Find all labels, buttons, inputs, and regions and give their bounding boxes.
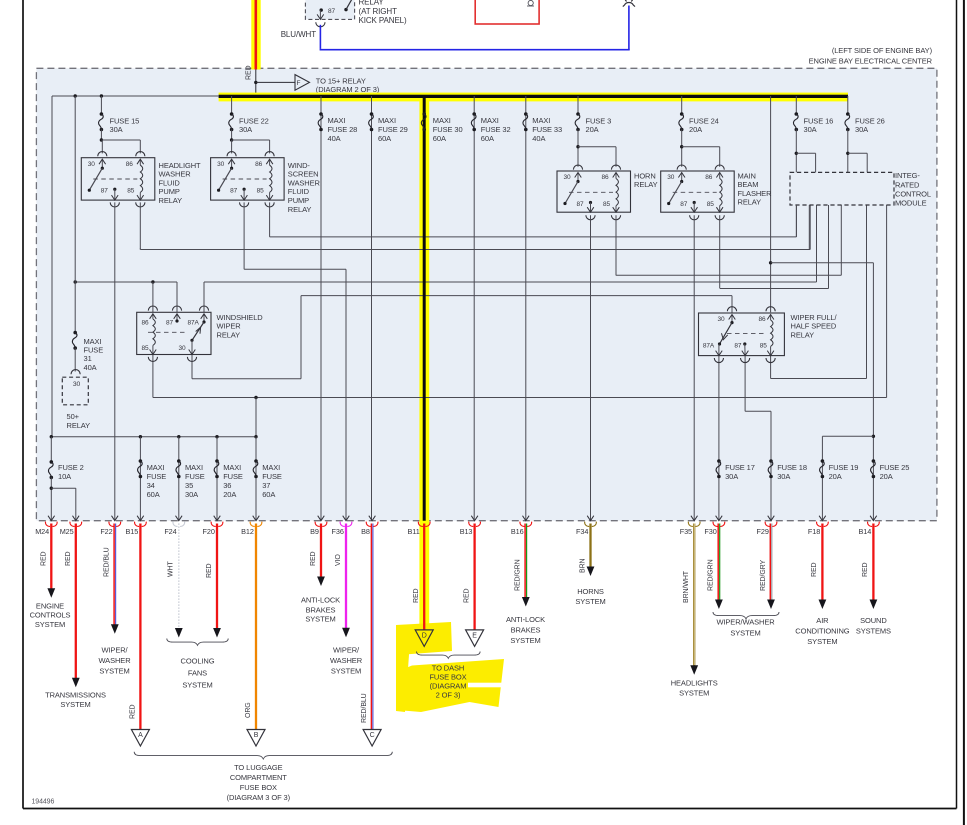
connector sockets below headlight washer relay (110, 202, 119, 207)
connector B8 at enclosure edge (369, 516, 376, 521)
svg-text:60A: 60A (147, 490, 160, 499)
svg-text:RED/GRY: RED/GRY (760, 560, 767, 591)
relay (at right kick panel) box (305, 0, 354, 19)
svg-text:RED: RED (862, 562, 869, 577)
svg-text:FUSE 2: FUSE 2 (58, 463, 84, 472)
svg-text:F30: F30 (704, 527, 716, 536)
svg-text:FUSE 29: FUSE 29 (378, 125, 408, 134)
connector sockets below wiper relay (714, 358, 723, 363)
wire fuse 15 to headlight relay (100, 130, 102, 141)
svg-text:TO DASH: TO DASH (432, 664, 465, 673)
svg-text:M24: M24 (35, 527, 49, 536)
svg-text:20A: 20A (689, 125, 702, 134)
svg-text:86: 86 (142, 319, 150, 326)
fuse MAXI FUSE 35 30A (177, 459, 181, 463)
svg-text:SYSTEM: SYSTEM (730, 629, 760, 638)
svg-text:RED/GRN: RED/GRN (515, 559, 522, 591)
svg-text:40A: 40A (84, 363, 97, 372)
svg-text:87: 87 (230, 188, 238, 195)
svg-text:FUSE 33: FUSE 33 (532, 125, 562, 134)
svg-text:B13: B13 (460, 527, 473, 536)
node on MAXI FUSE 31 wire (74, 280, 77, 283)
svg-text:FUSE: FUSE (147, 472, 167, 481)
svg-text:PUMP: PUMP (288, 196, 309, 205)
svg-text:30A: 30A (110, 125, 123, 134)
connector B15 at enclosure edge (137, 516, 144, 521)
svg-text:HORNS: HORNS (577, 587, 604, 596)
svg-text:30: 30 (667, 174, 675, 181)
svg-text:FUSE BOX: FUSE BOX (240, 783, 277, 792)
node maxi fuse 31 tap (74, 94, 77, 97)
small circle terminal in red box (528, 0, 533, 5)
svg-text:86: 86 (602, 174, 610, 181)
svg-text:RED: RED (40, 551, 47, 566)
svg-text:86: 86 (255, 161, 263, 168)
svg-text:85: 85 (760, 342, 768, 349)
wire RED M24 to engine controls (50, 524, 52, 590)
svg-text:SYSTEM: SYSTEM (35, 620, 65, 629)
connector triangle B (247, 730, 265, 747)
svg-text:(LEFT SIDE OF ENGINE BAY): (LEFT SIDE OF ENGINE BAY) (832, 46, 933, 55)
wire maxi fuse 35 column (178, 437, 180, 521)
svg-text:FLUID: FLUID (288, 187, 310, 196)
svg-text:85: 85 (142, 345, 150, 352)
svg-text:B8: B8 (361, 527, 370, 536)
svg-text:20A: 20A (223, 490, 236, 499)
svg-text:FUSE 17: FUSE 17 (725, 463, 755, 472)
fuse MAXI FUSE 36 20A (215, 459, 219, 463)
wire drop to windshield relay 87 (176, 282, 178, 312)
svg-text:31: 31 (84, 354, 92, 363)
fuse FUSE 17 30A (717, 459, 721, 463)
connector socket under relay (316, 22, 325, 27)
wire ICM pins A-G stubs (795, 205, 797, 237)
wire maxi fuse 37 column (255, 437, 257, 521)
wire horn relay 85 down (615, 215, 617, 275)
connector F34 at enclosure edge (587, 516, 594, 521)
svg-text:86: 86 (759, 316, 767, 323)
svg-text:WHT: WHT (168, 561, 175, 577)
wire headlight relay 85 down (139, 202, 141, 249)
svg-text:20A: 20A (586, 125, 599, 134)
node fuse 2 tap (50, 435, 53, 438)
svg-text:SYSTEM: SYSTEM (182, 681, 212, 690)
brace cooling fans (167, 639, 228, 646)
svg-text:30A: 30A (804, 125, 817, 134)
fuse FUSE 15 30A (100, 112, 104, 116)
bus bar yellow highlight (horizontal) (219, 93, 848, 102)
svg-text:37: 37 (262, 481, 270, 490)
wire fuse 2 to M24/M25 (50, 477, 52, 520)
svg-text:RELAY: RELAY (791, 330, 815, 339)
wire main beam relay 85 to ICM pin D (720, 288, 829, 290)
connector socket above 50+ relay (71, 370, 80, 375)
wire fuse 25 column (872, 461, 874, 521)
wire windshield relay 85 coil return to ICM pin G (152, 355, 154, 398)
integrated control module U5 (dashed box) (790, 172, 894, 205)
svg-text:30A: 30A (777, 472, 790, 481)
svg-text:MAXI: MAXI (185, 463, 203, 472)
wire windshield relay 30 to wiper relay 30 (191, 355, 193, 379)
svg-text:F24: F24 (164, 527, 176, 536)
wire BRN F34 to horns (589, 524, 591, 568)
connector F24 at enclosure edge (176, 516, 183, 521)
svg-text:50+: 50+ (67, 412, 80, 421)
connector sockets above windscreen washer relay (227, 152, 236, 157)
svg-text:CONTROLS: CONTROLS (30, 611, 71, 620)
svg-text:WIPER/WASHER: WIPER/WASHER (716, 618, 775, 627)
svg-text:RELAY: RELAY (67, 421, 91, 430)
wire FUSE 26 feed (847, 96, 849, 114)
wire MAXI FUSE 31 column (74, 96, 76, 333)
svg-text:RED/GRN: RED/GRN (708, 559, 715, 591)
svg-text:SCREEN: SCREEN (288, 170, 319, 179)
svg-text:FLUID: FLUID (159, 178, 181, 187)
svg-text:RELAY: RELAY (359, 0, 385, 7)
svg-text:87: 87 (577, 201, 585, 208)
svg-text:60A: 60A (481, 134, 494, 143)
fuse MAXI FUSE 33 40A (524, 112, 528, 116)
svg-text:87: 87 (734, 342, 742, 349)
svg-text:TRANSMISSIONS: TRANSMISSIONS (45, 691, 106, 700)
relay U1 headlight washer fluid pump relay (81, 158, 155, 200)
connector F36 at enclosure edge (343, 516, 350, 521)
svg-text:B12: B12 (241, 527, 254, 536)
node wiper coil feed (769, 261, 772, 264)
svg-text:MAXI: MAXI (481, 116, 499, 125)
svg-text:FUSE: FUSE (223, 472, 243, 481)
svg-text:WASHER: WASHER (288, 178, 321, 187)
wire fuse 26 to ICM (847, 130, 849, 173)
svg-text:BRN/WHT: BRN/WHT (683, 570, 690, 603)
svg-text:FUSE: FUSE (262, 472, 282, 481)
wire RED/GRN F30 to wiper/washer (717, 524, 719, 601)
fuse FUSE 16 30A (795, 112, 799, 116)
svg-text:B9: B9 (310, 527, 319, 536)
wire main beam relay 85 down (719, 215, 721, 288)
svg-text:FUSE 25: FUSE 25 (880, 463, 910, 472)
svg-text:BLU/WHT: BLU/WHT (281, 30, 317, 39)
svg-text:87A: 87A (703, 342, 715, 349)
svg-text:85: 85 (257, 188, 265, 195)
connector M25 at enclosure edge (73, 516, 80, 521)
connector triangle E (466, 630, 484, 647)
svg-text:BRAKES: BRAKES (306, 605, 336, 614)
connector sockets above wiper full/half speed relay (727, 307, 736, 312)
wire fuse 22 to windscreen relay (231, 130, 233, 141)
svg-text:RELAY: RELAY (634, 180, 658, 189)
svg-text:KICK PANEL): KICK PANEL) (359, 16, 408, 25)
svg-text:WIPER/: WIPER/ (101, 646, 128, 655)
relay U3 horn relay (557, 171, 631, 212)
svg-text:RED: RED (246, 65, 253, 80)
svg-text:FUSE 28: FUSE 28 (328, 125, 358, 134)
wire ORG B12 to triangle B (255, 524, 257, 730)
svg-text:B: B (254, 732, 259, 739)
relay U7 wiper full/half speed relay (699, 313, 785, 356)
svg-text:85: 85 (603, 201, 611, 208)
connector F29 at enclosure edge (768, 516, 775, 521)
wire RED/BLU F22 to wiper/washer (113, 524, 115, 626)
connector F35 at enclosure edge (691, 516, 698, 521)
wire fuse 18 column (770, 461, 772, 521)
svg-text:WIPER: WIPER (217, 322, 242, 331)
connector sockets above main beam relay (677, 165, 686, 170)
fuse MAXI FUSE 34 60A (139, 459, 143, 463)
wire RED F20 to cooling fans (216, 524, 218, 630)
wire wiper relay 87 to fuse 18 (744, 356, 746, 412)
page frame bottom border (23, 808, 957, 810)
wire MAXI FUSE 29 column (to B8) (371, 96, 373, 521)
node maxi 34 tap (139, 435, 142, 438)
fuse FUSE 2 10A (50, 460, 54, 464)
wire RED B11 highlighted to triangle D (423, 524, 425, 630)
connector F22 at enclosure edge (112, 516, 119, 521)
relay switch contact (344, 8, 347, 11)
wire FUSE 22 feed (231, 96, 233, 114)
connector B14 at enclosure edge (870, 516, 877, 521)
svg-text:BRN: BRN (579, 558, 586, 573)
svg-text:30: 30 (88, 161, 96, 168)
svg-text:RED: RED (129, 704, 136, 719)
wire to 15+ relay arrow (256, 81, 295, 83)
wire BRN/WHT F35 to headlights (693, 524, 695, 667)
svg-text:MAXI: MAXI (84, 337, 102, 346)
wire VIO F36 to wiper/washer (345, 524, 347, 630)
svg-text:AIR: AIR (816, 616, 829, 625)
wire fuse 24 to main beam relay (681, 130, 683, 167)
wire main beam relay 87 to F35 (693, 215, 695, 521)
svg-text:ANTI-LOCK: ANTI-LOCK (506, 615, 545, 624)
svg-text:HEADLIGHT: HEADLIGHT (159, 161, 202, 170)
wire MAXI FUSE 28 column (to B9) (320, 96, 322, 521)
svg-text:(DIAGRAM: (DIAGRAM (430, 682, 467, 691)
wire left rail (51, 96, 53, 437)
wire WHT F24 to cooling fans (178, 524, 180, 630)
wire drop to windshield relay 86 (151, 280, 154, 283)
svg-text:60A: 60A (433, 134, 446, 143)
wire RED B15 to triangle A (139, 524, 141, 730)
node feed of bottom-left fuse row (254, 396, 257, 399)
svg-text:F29: F29 (757, 527, 769, 536)
svg-text:ANTI-LOCK: ANTI-LOCK (301, 595, 340, 604)
wire feed to fuses 19/25 from node (771, 262, 874, 264)
svg-text:34: 34 (147, 481, 155, 490)
connector M24 at enclosure edge (48, 516, 55, 521)
svg-text:B14: B14 (859, 527, 872, 536)
page frame right outer border (963, 0, 965, 825)
svg-text:MAIN: MAIN (738, 171, 756, 180)
wire RED M25 to transmissions (75, 524, 77, 680)
svg-text:HALF SPEED: HALF SPEED (791, 322, 837, 331)
svg-text:RED/BLU: RED/BLU (361, 693, 368, 723)
connector triangle A (131, 730, 149, 747)
wire branch to fuse 19 (822, 435, 873, 437)
wire fuse 2 column (50, 437, 52, 462)
svg-text:87A: 87A (188, 319, 200, 326)
red component box (top center) (475, 0, 539, 24)
connector F20 at enclosure edge (214, 516, 221, 521)
svg-text:F: F (297, 80, 301, 87)
svg-text:30: 30 (179, 345, 187, 352)
wire maxi fuse 36 column (216, 437, 218, 521)
svg-text:FUSE BOX: FUSE BOX (429, 673, 466, 682)
connector sockets above horn relay (573, 165, 582, 170)
connector B12 at enclosure edge (253, 516, 260, 521)
wire ICM pin C power rail to windshield wiper relay (75, 281, 177, 283)
svg-text:MAXI: MAXI (262, 463, 280, 472)
svg-text:35: 35 (185, 481, 193, 490)
svg-text:MAXI: MAXI (378, 116, 396, 125)
svg-text:SYSTEM: SYSTEM (510, 636, 540, 645)
svg-text:40A: 40A (328, 134, 341, 143)
svg-text:30: 30 (718, 316, 726, 323)
svg-text:MAXI: MAXI (328, 116, 346, 125)
fuse MAXI FUSE 30 60A (422, 112, 426, 116)
wire horn relay 85 to ICM pin E (616, 274, 841, 276)
svg-text:SYSTEM: SYSTEM (60, 700, 90, 709)
relay pin 87 node (320, 8, 323, 11)
svg-text:M25: M25 (60, 527, 74, 536)
connector sockets below horn relay (586, 215, 595, 220)
wire MAXI FUSE 33 column (to B16) (525, 96, 527, 521)
svg-text:RED: RED (463, 588, 470, 603)
page frame left border (22, 0, 24, 809)
wire windscreen relay 87 down (243, 202, 245, 269)
svg-text:SYSTEM: SYSTEM (679, 689, 709, 698)
svg-text:F18: F18 (808, 527, 820, 536)
svg-text:RELAY: RELAY (217, 330, 241, 339)
svg-text:194496: 194496 (32, 799, 55, 806)
svg-text:MAXI: MAXI (147, 463, 165, 472)
svg-text:20A: 20A (880, 472, 893, 481)
svg-text:COOLING: COOLING (181, 657, 215, 666)
svg-text:60A: 60A (262, 490, 275, 499)
wire RED with yellow highlight (top feed) (251, 0, 260, 70)
wire MAXI FUSE 32 column (to B13) (473, 96, 475, 521)
fuse FUSE 18 30A (769, 459, 773, 463)
svg-text:SYSTEM: SYSTEM (305, 615, 335, 624)
svg-text:RELAY: RELAY (288, 205, 312, 214)
relay U4 main beam flasher relay (661, 171, 735, 212)
svg-text:30: 30 (564, 174, 572, 181)
svg-text:SYSTEM: SYSTEM (575, 597, 605, 606)
svg-text:INTEG-: INTEG- (895, 171, 920, 180)
svg-text:WINDSHIELD: WINDSHIELD (217, 313, 264, 322)
relay pin 87 exit arrow (319, 10, 321, 19)
wire headlight relay 87 to F22 (114, 202, 116, 520)
connector B13 at enclosure edge (471, 516, 478, 521)
svg-text:SYSTEM: SYSTEM (99, 667, 129, 676)
wire MAXI FUSE 30 feed highlighted yellow (vertical bus to B11) (419, 96, 429, 630)
svg-text:BRAKES: BRAKES (511, 626, 541, 635)
svg-text:RED/BLU: RED/BLU (103, 547, 110, 577)
wire fuse 3 to horn relay (577, 130, 579, 167)
fuse MAXI FUSE 32 60A (472, 112, 476, 116)
highlighter blob around TO DASH FUSE BOX (396, 622, 452, 655)
svg-text:WIPER FULL/: WIPER FULL/ (791, 313, 838, 322)
wire horn relay 87 to F34 (590, 215, 592, 521)
wire RED/GRY F29 to wiper/washer (769, 524, 771, 601)
relay U6 windshield wiper relay (137, 312, 211, 354)
fuse MAXI FUSE 31 40A (73, 331, 77, 335)
svg-text:B16: B16 (511, 527, 524, 536)
fuse FUSE 19 20A (821, 459, 825, 463)
wire FUSE 24 feed (681, 96, 683, 114)
wire RED/GRN B16 to anti-lock brakes (524, 524, 526, 599)
svg-text:MAXI: MAXI (433, 116, 451, 125)
svg-text:VIO: VIO (335, 554, 342, 566)
svg-text:36: 36 (223, 481, 231, 490)
page frame right inner border (956, 0, 958, 809)
brace to luggage compartment (134, 752, 392, 759)
node maxi 37 tap (254, 435, 257, 438)
wire wiper relay 85 coil to ICM pin F (770, 356, 772, 379)
svg-text:FLASHER: FLASHER (738, 189, 773, 198)
wire windscreen relay 85 to ICM pin A (270, 236, 797, 238)
svg-text:E: E (472, 633, 477, 640)
wire RED B14 to sound systems (872, 524, 874, 601)
wire headlight relay 85 to ICM pin B (139, 248, 141, 249)
fuse FUSE 3 20A (576, 112, 580, 116)
wire fuse 16 to ICM (795, 130, 797, 173)
wire windscreen relay 85 down (269, 202, 271, 237)
wire FUSE 16 feed (795, 96, 797, 114)
wire windscreen relay 87 to F36 (244, 268, 346, 270)
svg-text:WASHER: WASHER (330, 656, 363, 665)
svg-text:40A: 40A (532, 134, 545, 143)
svg-text:C: C (370, 732, 375, 739)
connector sockets above headlight washer relay (98, 152, 107, 157)
svg-text:30A: 30A (239, 125, 252, 134)
wire maxi fuse 34 column (139, 437, 141, 521)
connector arrow F (to 15+ relay) (295, 75, 310, 91)
svg-text:FUSE 32: FUSE 32 (481, 125, 511, 134)
svg-text:87: 87 (166, 319, 174, 326)
wire bottom-left feed line (52, 436, 256, 438)
node maxi 36 tap (215, 435, 218, 438)
wire RED F18 to air conditioning (821, 524, 823, 601)
svg-text:86: 86 (705, 174, 713, 181)
svg-text:F20: F20 (203, 527, 215, 536)
wire RED B13 to triangle E (473, 524, 475, 630)
svg-text:WIND-: WIND- (288, 161, 311, 170)
svg-text:HORN: HORN (634, 171, 656, 180)
svg-text:BEAM: BEAM (738, 180, 759, 189)
junction node (254, 81, 257, 84)
svg-text:MAXI: MAXI (223, 463, 241, 472)
svg-text:RED: RED (310, 551, 317, 566)
svg-text:CONDITIONING: CONDITIONING (795, 627, 849, 636)
svg-text:ENGINE BAY ELECTRICAL CENTER: ENGINE BAY ELECTRICAL CENTER (809, 57, 933, 66)
wire FUSE 15 feed from rail (100, 94, 103, 97)
svg-text:87: 87 (101, 188, 109, 195)
svg-text:A: A (138, 732, 143, 739)
svg-text:(DIAGRAM 3 OF 3): (DIAGRAM 3 OF 3) (227, 793, 291, 802)
wire BLU/WHT from relay to connector (319, 25, 321, 49)
wire RED B9 to anti-lock brakes (320, 524, 322, 578)
engine bay electrical center enclosure (36, 68, 937, 520)
connector triangle D (highlighted) (415, 630, 433, 647)
svg-text:30: 30 (217, 161, 225, 168)
svg-text:COMPARTMENT: COMPARTMENT (230, 773, 287, 782)
svg-text:RATED: RATED (895, 180, 920, 189)
svg-text:F34: F34 (576, 527, 588, 536)
svg-text:F36: F36 (332, 527, 344, 536)
connector sockets below main beam relay (690, 215, 699, 220)
svg-text:ORG: ORG (245, 702, 252, 718)
svg-text:30A: 30A (855, 125, 868, 134)
